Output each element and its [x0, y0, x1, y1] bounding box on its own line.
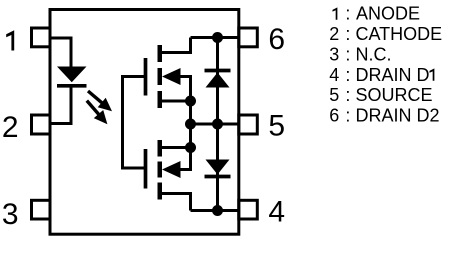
svg-text:5: 5 — [268, 110, 285, 143]
svg-text:6: 6 — [329, 106, 339, 126]
pin 3 stub — [32, 200, 51, 219]
wire pin1 to LED anode — [50, 38, 71, 67]
svg-text:5: 5 — [329, 85, 339, 105]
transistor Q2 body arrow — [162, 161, 181, 178]
transistor Q2 gate bar — [144, 149, 148, 189]
wire source column — [189, 101, 192, 148]
pin 2 stub — [32, 115, 51, 134]
diode D1 (top body diode) triangle — [206, 73, 230, 88]
wire Q1 drain stub — [158, 38, 191, 53]
svg-text::: : — [345, 106, 350, 126]
wire LED cathode to pin2 — [50, 86, 71, 124]
svg-text:SOURCE: SOURCE — [356, 85, 433, 105]
junction dot bottom rail / diode column — [212, 205, 223, 216]
pin 1 stub — [32, 28, 51, 47]
transistor Q1 body arrow — [162, 68, 181, 85]
junction dot top rail / diode column — [212, 32, 223, 43]
legend line 4 : DRAIN D1 — [329, 65, 434, 85]
transistor Q1 channel segments — [158, 45, 163, 62]
svg-text::: : — [345, 24, 350, 44]
light arrow 2 — [87, 101, 108, 125]
wire Q1 arrow to source node — [180, 77, 191, 102]
wire bottom rail to pin 4 — [191, 209, 239, 212]
svg-text:4: 4 — [329, 65, 339, 85]
svg-text:ANODE: ANODE — [356, 4, 420, 24]
gate bus wire (gates of Q1 and Q2) — [123, 77, 146, 169]
junction dot source top — [185, 96, 196, 107]
wire Q1 source stub — [158, 100, 191, 103]
svg-text:CATHODE: CATHODE — [356, 24, 443, 44]
svg-text:DRAIN D2: DRAIN D2 — [356, 106, 440, 126]
wire diode column — [216, 38, 219, 211]
svg-text::: : — [345, 45, 350, 65]
diode D2 (bottom body diode) triangle — [206, 160, 230, 175]
legend line 1 : ANODE — [333, 4, 421, 24]
wire Q2 drain stub — [158, 194, 191, 211]
pin 4 stub — [239, 200, 257, 219]
svg-text:DRAIN D: DRAIN D — [356, 65, 430, 85]
wire Q2 source stub — [158, 146, 191, 149]
transistor Q2 channel segments — [158, 140, 163, 157]
junction dot source bottom — [185, 142, 196, 153]
junction dot source middle — [185, 119, 196, 130]
pin 6 stub — [239, 28, 257, 47]
LED cathode bar — [57, 84, 87, 88]
svg-text:3: 3 — [2, 198, 19, 231]
svg-text::: : — [345, 4, 350, 24]
diode D2 cathode bar — [205, 175, 231, 179]
svg-text:2: 2 — [2, 111, 19, 144]
legend line 5 : SOURCE — [329, 85, 432, 105]
legend line 2 : CATHODE — [329, 24, 442, 44]
wire middle rail to pin 5 — [191, 123, 239, 126]
light arrow 1 — [88, 91, 112, 111]
svg-text:N.C.: N.C. — [356, 45, 392, 65]
LED triangle — [57, 67, 87, 83]
svg-text:3: 3 — [329, 45, 339, 65]
pin 1 label — [6, 30, 14, 50]
svg-text:6: 6 — [268, 23, 285, 56]
diode D1 cathode bar — [205, 69, 231, 73]
legend line 6 : DRAIN D2 — [329, 106, 439, 126]
svg-text::: : — [345, 65, 350, 85]
package outline U1 — [50, 10, 239, 235]
legend line 3 : N.C. — [329, 45, 391, 65]
svg-text::: : — [345, 85, 350, 105]
svg-text:4: 4 — [268, 196, 285, 229]
pin 5 stub — [239, 115, 257, 134]
svg-text:2: 2 — [329, 24, 339, 44]
junction dot middle rail / diode column — [212, 119, 223, 130]
wire top rail to pin 6 — [191, 36, 239, 39]
transistor Q1 gate bar — [144, 58, 148, 96]
wire Q2 arrow to source node — [180, 148, 191, 170]
